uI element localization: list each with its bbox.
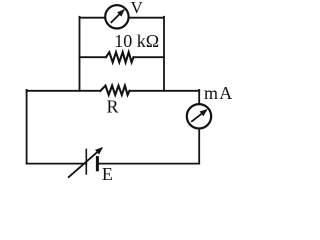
resistor R1 10 kOhm zigzag <box>106 52 134 62</box>
battery long plate <box>85 149 87 175</box>
variable-source arrow through battery <box>68 148 102 178</box>
wire sub-circuit right side <box>163 17 165 91</box>
wire bottom right (battery to right corner) <box>97 163 199 165</box>
battery E (variable source: long and short plates with diagonal arrow) <box>68 148 102 178</box>
svg-text:V: V <box>131 0 144 17</box>
wire R branch right lead <box>130 90 200 92</box>
wire right side lower (bottom corner up to ammeter) <box>198 128 200 164</box>
wire 10k branch left lead <box>80 56 107 58</box>
wire 10k branch right lead <box>134 56 165 58</box>
wire R branch left lead <box>27 90 101 92</box>
svg-text:R: R <box>107 97 119 117</box>
ammeter mA (circle with arrow needle) <box>187 104 211 128</box>
battery short thick plate <box>96 156 99 171</box>
svg-text:mA: mA <box>204 83 234 103</box>
voltmeter V1 (circle with arrow needle) <box>105 5 128 28</box>
wire sub-circuit left side <box>79 17 81 91</box>
wire right side upper (R branch down to ammeter) <box>198 90 200 105</box>
svg-text:10 kΩ: 10 kΩ <box>114 31 159 51</box>
wire bottom left (to battery) <box>27 163 87 165</box>
resistor R zigzag <box>100 86 129 95</box>
wire left side of main loop <box>26 90 28 164</box>
svg-text:E: E <box>102 164 113 184</box>
wire top (sub-circuit top side) <box>80 17 165 19</box>
